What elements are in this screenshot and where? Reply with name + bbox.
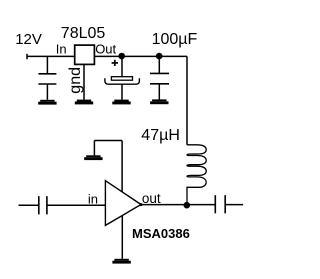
svg-text:78L05: 78L05: [61, 25, 106, 42]
svg-text:out: out: [142, 191, 161, 206]
svg-text:In: In: [56, 41, 67, 56]
svg-text:12V: 12V: [15, 31, 42, 48]
svg-text:Out: Out: [95, 41, 116, 56]
svg-text:MSA0386: MSA0386: [132, 226, 190, 241]
svg-text:100µF: 100µF: [152, 31, 198, 48]
svg-text:in: in: [88, 191, 98, 206]
svg-text:47µH: 47µH: [141, 127, 180, 144]
svg-text:gnd: gnd: [67, 67, 84, 94]
